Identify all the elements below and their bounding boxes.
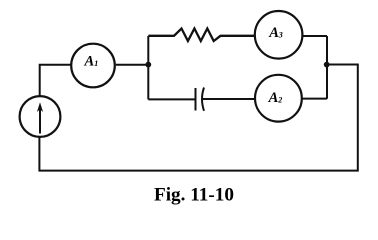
svg-text:A: A [268,25,279,41]
svg-text:Fig. 11-10: Fig. 11-10 [154,184,234,205]
svg-text:A: A [84,54,95,70]
svg-text:3: 3 [278,30,283,39]
svg-text:A: A [268,90,279,106]
svg-text:2: 2 [277,95,282,104]
svg-text:1: 1 [94,59,98,68]
